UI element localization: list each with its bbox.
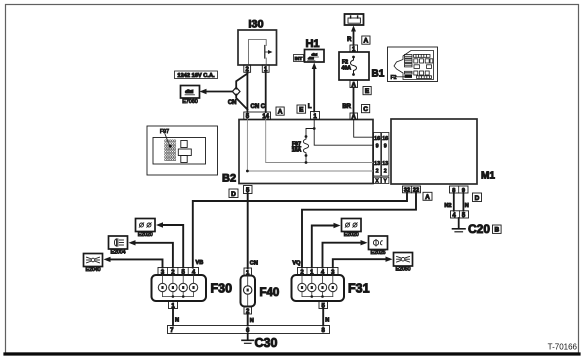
fusebox inset F97 location <box>147 126 218 175</box>
svg-text:E2020: E2020 <box>344 232 359 238</box>
svg-text:10A: 10A <box>292 148 302 154</box>
horn E7060 <box>181 86 200 99</box>
svg-text:F2: F2 <box>391 75 397 81</box>
svg-text:R: R <box>347 37 352 43</box>
pin 1 of I30 <box>262 65 269 73</box>
svg-text:B1: B1 <box>372 69 385 80</box>
svg-text:E2040: E2040 <box>85 267 100 273</box>
junction dot below pin 1 <box>313 127 316 130</box>
svg-text:2: 2 <box>384 168 387 174</box>
svg-text:T-70166: T-70166 <box>548 343 578 352</box>
svg-text:N: N <box>175 318 179 324</box>
svg-text:E2025: E2025 <box>370 250 385 256</box>
svg-text:CN: CN <box>228 100 237 106</box>
pin 1 on B2 top <box>311 112 320 121</box>
pin row 8 / 9 on M1 bottom <box>450 186 469 194</box>
pin 2 of I30 <box>244 65 251 73</box>
connector F31 <box>292 268 345 302</box>
caption box 1242 16V C.A. <box>175 71 218 79</box>
body computer B2 <box>239 120 373 184</box>
wire B2 pin1 to H1 with up arrow <box>312 63 317 112</box>
svg-text:40A: 40A <box>342 66 352 72</box>
svg-text:N: N <box>465 203 469 209</box>
control unit M1 <box>391 119 477 184</box>
svg-text:N: N <box>250 318 254 324</box>
plate lamp E2050 <box>394 253 413 267</box>
wire B2 pin5 to F40 pin1 <box>247 194 249 269</box>
svg-text:A: A <box>425 194 430 201</box>
svg-text:N: N <box>325 318 329 324</box>
svg-text:C: C <box>363 106 368 113</box>
svg-text:VB: VB <box>196 260 204 266</box>
wire F30 to C30 <box>172 309 174 326</box>
svg-text:B: B <box>494 227 499 234</box>
relay I30 <box>238 30 277 65</box>
svg-text:E: E <box>299 107 304 114</box>
svg-text:B2: B2 <box>222 173 236 185</box>
svg-text:N2: N2 <box>444 203 451 209</box>
F31 bulbs <box>298 275 337 297</box>
svg-text:A: A <box>278 109 283 116</box>
node label D (boxed) <box>229 189 238 198</box>
svg-text:F40: F40 <box>260 287 280 299</box>
connector pins 4 / 5 of C20 <box>451 211 469 219</box>
B2 internal: pin5 conductor to pin 2 row <box>247 120 373 172</box>
svg-text:INT: INT <box>295 56 303 62</box>
front lamp E2004 <box>109 236 128 249</box>
pin 5 on F31 bottom <box>319 301 328 309</box>
svg-text:E2020: E2020 <box>138 232 153 238</box>
svg-text:CN: CN <box>251 104 260 110</box>
wire splice left leg lower <box>236 95 247 110</box>
svg-text:F31: F31 <box>348 282 370 296</box>
wire F30 pin2 to E2004 with arrow <box>129 240 173 267</box>
wire I30 pin2 to B2 pin 5 (right leg) <box>246 72 248 112</box>
svg-text:E: E <box>365 88 370 95</box>
wire M1 pin8 to C20 <box>453 193 455 211</box>
pin A of B1 <box>350 81 358 89</box>
fuse F97 10A <box>292 135 309 164</box>
svg-text:9: 9 <box>376 144 379 150</box>
node label A (boxed) <box>276 107 284 116</box>
fusebox B1 <box>339 52 369 80</box>
wire F30 pin5 to E2020 with arrow <box>156 222 183 267</box>
node label B (boxed) <box>493 225 502 234</box>
wire arrow to horn E7060 <box>200 89 233 94</box>
plate lamp E2040 <box>84 254 103 267</box>
B2 internal: pin1 conductor <box>314 120 373 146</box>
wire M1 pin9 to C20 <box>462 193 464 211</box>
svg-text:F30: F30 <box>211 282 233 296</box>
svg-text:D: D <box>231 191 236 198</box>
B2 internal: pin14 conductor to pin 13 row <box>266 120 373 163</box>
wire F31 pin4 to E2025 with arrow <box>323 240 368 268</box>
svg-text:A: A <box>364 38 369 45</box>
connector interface columns B2/M1 <box>374 133 389 185</box>
svg-text:M1: M1 <box>481 171 495 182</box>
pin 5 on B2 bottom <box>244 186 253 195</box>
ground C20 <box>453 218 466 232</box>
svg-text:1242 16V C.A.: 1242 16V C.A. <box>177 73 215 79</box>
svg-text:I30: I30 <box>248 19 263 31</box>
svg-text:2: 2 <box>376 168 379 174</box>
svg-text:9: 9 <box>384 144 387 150</box>
side lamps right E2020 <box>342 219 362 232</box>
pin A on B2 top <box>350 113 358 121</box>
svg-text:H1: H1 <box>305 38 319 50</box>
wire M1 pin22 to F31 pin2 <box>302 193 416 268</box>
svg-text:L: L <box>308 104 312 110</box>
junction dot <box>246 170 249 173</box>
svg-text:16: 16 <box>374 136 380 142</box>
node label D (boxed) <box>473 193 482 202</box>
svg-text:E2004: E2004 <box>110 250 125 256</box>
ground bus C30 <box>168 326 330 335</box>
node label E (boxed) <box>363 87 371 96</box>
node label C (boxed) <box>362 105 370 114</box>
connector F30 <box>152 268 207 302</box>
side lamps left E2020 <box>136 219 156 232</box>
F30 bulbs <box>158 275 197 297</box>
wire I30 pin1 to B2 pin 14 <box>265 72 267 112</box>
node label A (boxed) <box>362 36 370 45</box>
battery icon (supply symbol) <box>345 14 364 25</box>
wire F30 pin3 to E2040 with arrow <box>104 257 163 268</box>
rear lamp E2025 <box>369 236 388 250</box>
ground symbol C30 <box>242 334 254 344</box>
node label A (boxed) <box>423 192 432 201</box>
wire splice left leg upper <box>236 74 247 89</box>
fog lamp connector F40 <box>241 268 256 315</box>
B2 internal: pinA conductor to pin 16 row <box>354 120 373 138</box>
svg-text:VQ: VQ <box>292 261 301 267</box>
node label E (boxed) <box>297 105 306 114</box>
pin row 32 / 22 on M1 bottom <box>403 186 421 194</box>
wire F31 pin1 to E2020 with arrow <box>312 223 341 268</box>
horns H1 <box>305 50 325 63</box>
wire F31 to C30 <box>322 309 324 326</box>
svg-text:E2050: E2050 <box>395 267 410 273</box>
svg-text:E7060: E7060 <box>182 99 198 105</box>
wire M1 pin32 to F30 pin4 <box>193 193 407 268</box>
wire F31 pin3 to E2050 with arrow <box>333 257 393 268</box>
wire F40 to C30 <box>247 314 249 326</box>
B2 internal: branch to fuse F97 <box>306 129 314 137</box>
wire B1 to B2 pin A <box>353 88 355 114</box>
svg-text:13: 13 <box>382 161 388 167</box>
wire battery feed with up arrow <box>351 26 356 46</box>
svg-text:C30: C30 <box>255 336 278 350</box>
fusebox inset illustration (B1 location, F2 highlighted) <box>388 47 438 82</box>
pin row 5 / 14 on B2 top <box>244 112 271 120</box>
svg-text:BR: BR <box>342 104 351 110</box>
pin 1 of B1 <box>350 45 358 53</box>
label INT (boxed) <box>294 55 304 63</box>
svg-text:13: 13 <box>374 161 380 167</box>
pin 1 on F30 bottom <box>169 301 178 309</box>
svg-text:D: D <box>475 195 480 202</box>
svg-text:F97: F97 <box>160 129 169 135</box>
svg-text:16: 16 <box>382 136 388 142</box>
svg-text:C: C <box>261 104 266 110</box>
svg-text:C20: C20 <box>468 222 490 236</box>
splice diamond junction <box>232 87 240 95</box>
svg-text:CN: CN <box>250 261 258 267</box>
